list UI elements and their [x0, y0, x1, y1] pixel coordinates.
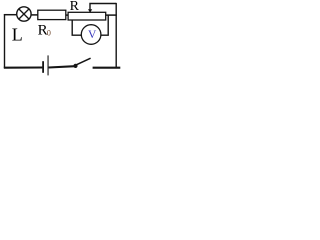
rheostat slider arrowhead	[88, 9, 92, 12]
wire voltmeter right branch	[101, 15, 108, 35]
wire R right terminal to right rail	[106, 14, 117, 16]
battery positive plate (long)	[48, 55, 49, 75]
wire R0 to R	[66, 14, 69, 16]
svg-text:L: L	[12, 24, 23, 44]
svg-text:R: R	[70, 0, 80, 14]
wire top-left horizontal	[4, 14, 17, 16]
wire bottom right	[93, 67, 121, 69]
resistor R (rheostat body)	[68, 12, 106, 20]
lamp L (circle with X)	[17, 7, 31, 21]
wire left rail	[4, 14, 6, 68]
voltmeter V (circle)	[81, 25, 101, 45]
svg-text:V: V	[88, 29, 97, 41]
wire right rail	[115, 3, 117, 68]
wire battery to switch	[49, 66, 75, 67]
switch pivot dot	[73, 64, 77, 68]
wire bottom left (to battery)	[4, 66, 43, 68]
svg-text:0: 0	[47, 29, 51, 38]
wire lamp to R0	[31, 14, 38, 16]
resistor R0	[38, 10, 66, 19]
switch lever (open)	[77, 58, 91, 64]
battery negative plate (short)	[42, 61, 44, 73]
wire rheostat slider tap (up and over to right rail)	[90, 4, 116, 11]
wire voltmeter left branch	[72, 20, 81, 35]
